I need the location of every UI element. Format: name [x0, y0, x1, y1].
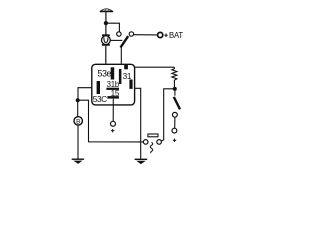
- svg-text:31b: 31b: [107, 80, 120, 89]
- wire ground to node A: [105, 12, 107, 22]
- pushbutton S3 bridge plate: [148, 134, 158, 137]
- ground (middle): [135, 159, 148, 164]
- pushbutton S3 contact right: [157, 140, 162, 145]
- svg-text:53e: 53e: [97, 68, 111, 78]
- wire node C to component B1: [77, 102, 79, 117]
- wire node A to switch contact S1a: [106, 23, 120, 31]
- pin 31 lower bar: [129, 80, 132, 89]
- wire S2 contacts link: [174, 117, 176, 128]
- terminal + (below 15): [111, 121, 116, 126]
- svg-text:BAT: BAT: [169, 31, 183, 40]
- label + (battery feed right): [173, 139, 176, 142]
- pin 53C (left bar): [97, 81, 100, 94]
- wire node A to lamp: [105, 25, 107, 35]
- wire relay 15 to + terminal: [112, 99, 114, 122]
- switch S2 contact lower: [172, 128, 177, 133]
- wire lamp to switch S1 lever: [110, 39, 122, 41]
- node C (junction dot): [76, 98, 80, 102]
- switch S1 contact b: [129, 32, 133, 36]
- pin 53e: [111, 67, 115, 79]
- pushbutton S3 contact left: [143, 140, 148, 145]
- label + (below 15): [111, 129, 114, 132]
- svg-text:53C: 53C: [93, 94, 107, 104]
- switch S1 contact a: [117, 32, 121, 36]
- ground (top chassis ground, hatched dome): [100, 9, 113, 12]
- switch S2 contact upper: [173, 112, 178, 117]
- resistor R1: [172, 67, 177, 82]
- component B1 (circle with B): [74, 117, 82, 126]
- svg-text:B: B: [76, 118, 80, 125]
- switch S2 lever: [174, 97, 180, 110]
- switch S1 lever: [121, 36, 129, 47]
- wire S1 lever to relay top: [120, 46, 122, 64]
- wire lamp to relay terminal 53e: [105, 46, 107, 64]
- pin 31b bar: [106, 88, 119, 90]
- node A (junction dot): [104, 21, 108, 25]
- wire relay right side to mid ground: [135, 88, 141, 159]
- terminal +BAT: [158, 32, 163, 37]
- wire node B left and down to pushbutton: [161, 89, 173, 141]
- wire resistor to node B: [173, 82, 175, 88]
- test lamp L1: [102, 35, 111, 45]
- label + BAT: [164, 34, 167, 38]
- wire relay 31 to resistor R1: [135, 66, 175, 68]
- ground (left): [72, 159, 84, 164]
- switch S2 stub: [174, 91, 176, 96]
- wire component B1 to left ground: [77, 125, 79, 159]
- pushbutton S3 actuator spring: [150, 142, 153, 153]
- relay U1 (wiper relay box): [92, 64, 135, 105]
- wire S1 contact b to +BAT: [134, 34, 158, 36]
- pin (switch wire terminal): [119, 69, 122, 84]
- pin 31 top blob: [124, 65, 128, 69]
- pin 15 bar: [107, 96, 119, 99]
- wire node C to pushbutton S3: [78, 100, 144, 142]
- node B (junction dot): [173, 87, 177, 91]
- wire relay 53C to node C: [78, 88, 92, 99]
